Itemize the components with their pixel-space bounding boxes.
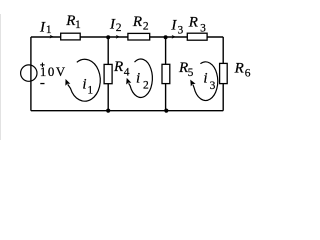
- svg-text:i: i: [203, 71, 207, 87]
- svg-text:4: 4: [124, 66, 130, 78]
- svg-text:5: 5: [188, 67, 194, 79]
- svg-text:i: i: [82, 76, 86, 92]
- svg-text:3: 3: [200, 23, 206, 35]
- svg-text:R: R: [188, 15, 198, 31]
- svg-text:2: 2: [143, 20, 149, 32]
- svg-text:R: R: [132, 14, 142, 30]
- svg-text:1: 1: [87, 84, 93, 96]
- svg-text:6: 6: [245, 68, 251, 80]
- svg-text:3: 3: [178, 25, 184, 37]
- svg-text:2: 2: [143, 79, 149, 91]
- svg-text:R: R: [65, 13, 75, 29]
- svg-text:3: 3: [210, 80, 216, 92]
- svg-text:10V: 10V: [40, 65, 67, 79]
- svg-text:i: i: [136, 71, 140, 87]
- svg-text:1: 1: [75, 19, 81, 31]
- svg-text:R: R: [234, 60, 244, 76]
- svg-text:R: R: [113, 59, 123, 75]
- svg-text:2: 2: [116, 22, 122, 34]
- svg-text:1: 1: [46, 24, 52, 36]
- svg-text:I: I: [170, 18, 177, 34]
